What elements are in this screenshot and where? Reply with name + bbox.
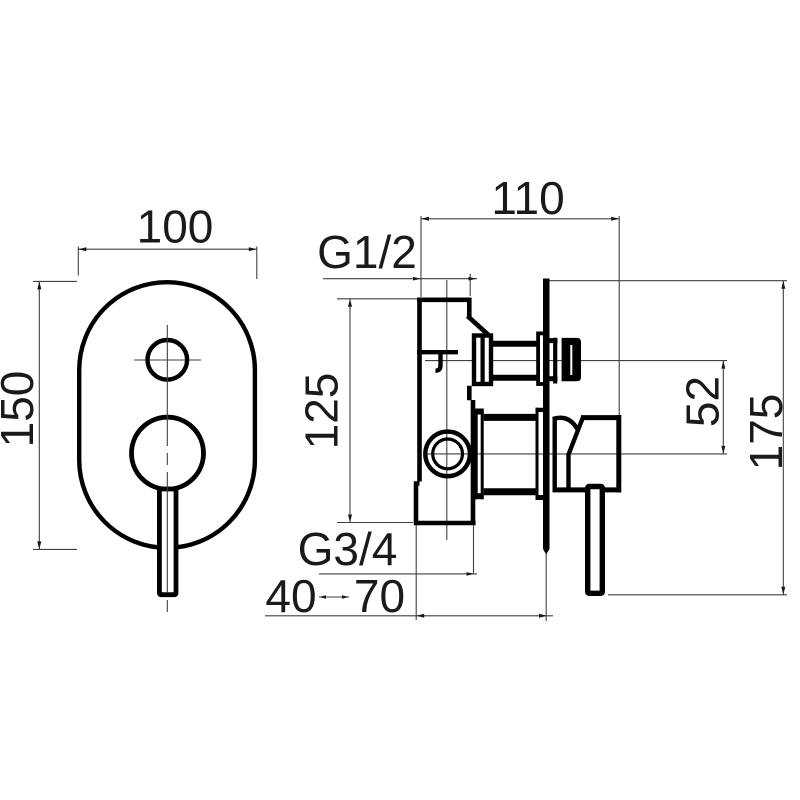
svg-text:100: 100 xyxy=(137,201,214,253)
svg-text:40: 40 xyxy=(265,570,316,622)
svg-text:125: 125 xyxy=(296,373,348,450)
svg-text:G1/2: G1/2 xyxy=(317,226,417,278)
svg-text:150: 150 xyxy=(0,371,43,448)
svg-text:175: 175 xyxy=(740,394,792,471)
svg-text:110: 110 xyxy=(491,172,564,224)
svg-text:G3/4: G3/4 xyxy=(298,523,398,575)
svg-text:52: 52 xyxy=(677,376,729,427)
svg-text:70: 70 xyxy=(354,570,405,622)
